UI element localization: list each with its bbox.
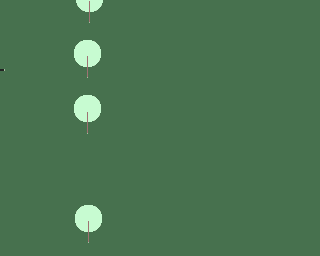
tree 4 canopy <box>75 205 102 232</box>
tree 1 canopy <box>76 0 103 12</box>
tree 1 trunk tip pixel <box>89 22 90 23</box>
tree 1 trunk <box>89 1 90 22</box>
background grass <box>0 0 256 256</box>
tree 1 canopy edge pixels <box>77 5 102 11</box>
tree 3 canopy <box>74 95 101 122</box>
tree 2 trunk <box>87 56 88 77</box>
tree 4 canopy edge pixels <box>76 206 101 231</box>
tree 4 trunk tip pixel <box>88 242 89 243</box>
tree 3 trunk tip pixel <box>87 133 88 134</box>
label fragment (black dash) at left edge <box>0 69 4 71</box>
tree 3 canopy edge pixels <box>75 96 100 121</box>
tree 2 canopy edge pixels <box>75 41 100 66</box>
tree 2 trunk tip pixel <box>87 77 88 78</box>
label fragment halo pixel <box>4 69 5 71</box>
tree 2 canopy <box>74 40 101 67</box>
tree 4 trunk <box>88 221 89 242</box>
tree 3 trunk <box>87 112 88 133</box>
